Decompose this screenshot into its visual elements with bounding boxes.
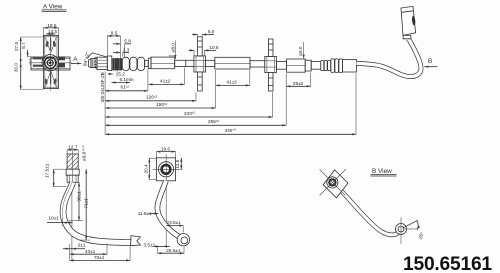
detail2 end lobe: [177, 234, 189, 246]
detail2 dim 3.5: [144, 243, 171, 248]
main view: hose narrow 2: [206, 60, 215, 66]
detail2 dim 26.5: [158, 247, 185, 253]
detail2 tube: [157, 181, 183, 239]
detail1 dim 12.7: [67, 145, 78, 154]
svg-text:B: B: [428, 58, 432, 65]
detail2 centerline long: [165, 185, 167, 248]
dim 27.5 (A view left): [14, 37, 21, 63]
B view label 20deg: [418, 231, 425, 239]
detail1 label dia 9.6: [81, 145, 86, 161]
A View title: [42, 4, 67, 12]
main view: banjo neck: [403, 35, 411, 38]
svg-text:5.2: 5.2: [118, 72, 125, 77]
dim 29: [286, 73, 311, 86]
main view: clip 1 body: [194, 56, 206, 72]
main view: hose cylinder 2: [215, 57, 250, 69]
svg-text:5.1min: 5.1min: [120, 77, 134, 82]
detail2 dim 11.5 right: [175, 158, 182, 170]
svg-text:23.5±1: 23.5±1: [167, 220, 182, 225]
svg-text:10±1: 10±1: [49, 216, 60, 221]
dim 5.2: [108, 71, 125, 77]
main view: banjo eye (dark): [412, 16, 416, 26]
detail1 tube: [62, 182, 131, 242]
dim 5.8: [113, 39, 131, 57]
dim 14.5 (A view top): [46, 29, 58, 34]
A view slot bottom arm: [44, 72, 57, 87]
svg-text:2±1: 2±1: [78, 242, 86, 247]
main view: cylinder1 end cap: [148, 58, 151, 69]
svg-text:26.5±1: 26.5±1: [166, 248, 181, 253]
detail1 washer: [66, 169, 79, 175]
A view centerlines: [30, 34, 72, 91]
main view: hose narrow 5: [311, 61, 321, 69]
dim 30.0 (A view left): [13, 37, 43, 90]
A view flange vertical arm: [43, 35, 58, 88]
detail2 block: [156, 158, 175, 181]
svg-text:29±2: 29±2: [293, 81, 304, 86]
dim 9.5: [107, 30, 120, 58]
svg-text:3/8-24UNF-2B: 3/8-24UNF-2B: [100, 72, 105, 102]
main view: hose narrow 4: [277, 61, 287, 69]
svg-text:30.0: 30.0: [13, 63, 18, 73]
A view slot right arm: [59, 57, 65, 68]
main view: crimp ribs small: [321, 61, 331, 71]
svg-text:11.5: 11.5: [175, 159, 180, 168]
detail2 dim 23.5: [166, 220, 183, 233]
B View title: [371, 168, 397, 176]
label dia 12.3: [93, 56, 98, 68]
A view slot left arm: [33, 57, 44, 67]
svg-text:2.3: 2.3: [123, 47, 130, 52]
svg-text:⌀12.3: ⌀12.3: [93, 56, 98, 68]
dim 18.5 (A view top): [43, 23, 58, 35]
svg-text:70±1: 70±1: [94, 255, 105, 260]
dim 6.0 (clip1): [192, 29, 215, 36]
main view: steel tube J-hook: [357, 38, 422, 76]
main view: bellows strain relief: [122, 57, 144, 70]
detail1 centerline: [71, 151, 74, 261]
main view: fitting body hex: [97, 57, 107, 69]
main view: hose cylinder 3: [287, 59, 306, 72]
svg-text:150.65161: 150.65161: [403, 254, 492, 273]
dim 41 first: [149, 68, 185, 85]
svg-text:⌀5.0: ⌀5.0: [298, 46, 303, 56]
detail2 dim 19.6: [156, 146, 175, 158]
svg-text:⌀6.3: ⌀6.3: [28, 58, 32, 64]
detail1 dim 38: [69, 182, 83, 220]
detail1 crimp: [67, 175, 78, 182]
dim 126: [105, 93, 196, 101]
svg-text:5.8: 5.8: [124, 39, 131, 44]
section arrow A: [71, 56, 81, 63]
detail1 dim 10: [47, 216, 73, 226]
svg-text:B View: B View: [372, 168, 392, 175]
main view: banjo block: [401, 6, 416, 35]
section arrow B: [424, 58, 437, 67]
detail1 fitting block (hatched): [67, 154, 78, 169]
label dia 6.3 near hub: [28, 58, 32, 64]
detail1 tube end break symbol: [131, 236, 141, 246]
detail1 dim 2: [63, 242, 86, 260]
B view banjo eye: [327, 177, 338, 188]
detail1 dim 43: [70, 244, 107, 255]
main view: bracket plate 2: [268, 39, 273, 91]
svg-text:12.7: 12.7: [68, 145, 78, 150]
svg-text:14.5: 14.5: [48, 29, 58, 34]
main view: fitting face washer: [107, 56, 112, 71]
detail1 dim 70: [70, 247, 130, 261]
dim 2.3: [113, 47, 130, 57]
svg-text:27.5: 27.5: [14, 42, 19, 52]
dim 150: [105, 70, 216, 108]
label dia 8.0: [169, 41, 176, 60]
main view: clip 2 body: [265, 56, 277, 72]
dim 330: [105, 72, 356, 135]
angle leader 84deg: [88, 53, 107, 58]
label dia 5.0: [298, 42, 304, 59]
main view: crimp collar (dark): [113, 59, 122, 70]
B view banjo block: [323, 170, 348, 198]
main view: thread section: [91, 59, 97, 68]
dim 10.5 (clip1): [189, 45, 219, 55]
svg-text:19.6: 19.6: [161, 146, 171, 151]
detail2 eye circles: [158, 162, 173, 177]
A view center circles: [42, 55, 58, 71]
B view diagonal centerlines: [320, 169, 347, 196]
main view: hose cylinder 1: [151, 57, 175, 69]
A view slot top arm: [45, 37, 56, 52]
svg-text:A: A: [73, 56, 78, 63]
detail2 block centerlines: [153, 155, 180, 185]
main view: crimp ribs large: [331, 59, 343, 73]
B view angle ray 20deg: [403, 220, 419, 229]
B view tube: [341, 191, 401, 235]
main view: hose narrow 3: [250, 61, 265, 67]
dim 233: [105, 92, 273, 117]
tube joint line: [185, 60, 187, 66]
B view end eye: [396, 224, 407, 235]
detail1 dim 17.5: [44, 163, 66, 186]
svg-text:6.7: 6.7: [21, 42, 26, 49]
main view: neck after bellows: [145, 60, 149, 66]
svg-text:43±1: 43±1: [85, 249, 96, 254]
label 84 deg: [82, 52, 90, 67]
dim 255: [105, 73, 286, 125]
dim 5.1min: [112, 77, 134, 83]
detail2 leader 11.5: [138, 211, 159, 216]
main view: hose step: [305, 60, 311, 71]
svg-text:⌀8.0: ⌀8.0: [171, 43, 176, 53]
svg-text:41±2: 41±2: [227, 80, 238, 85]
dim 6.7 (A view left): [21, 42, 43, 57]
svg-text:3.5±1: 3.5±1: [144, 243, 156, 248]
dim 61: [105, 70, 148, 91]
detail1 dim 71: [80, 169, 90, 240]
main view: right end cap: [343, 60, 357, 72]
detail2 dim 20.4 left: [144, 158, 157, 179]
svg-text:20.4: 20.4: [144, 164, 149, 174]
B view crosshair: [401, 217, 418, 244]
main view: bracket plate 1: [198, 37, 203, 91]
svg-text:10.5: 10.5: [209, 45, 219, 50]
A view flange horizontal arm: [31, 57, 70, 70]
svg-text:17.5±1: 17.5±1: [44, 163, 49, 178]
main view: hose narrow 1: [175, 60, 194, 66]
dim 41 second: [216, 70, 250, 85]
svg-text:6.0: 6.0: [208, 29, 215, 34]
part number: [403, 254, 492, 273]
main view: left fitting nose: [89, 59, 92, 68]
svg-text:41±2: 41±2: [160, 78, 171, 83]
svg-text:9.5: 9.5: [111, 30, 118, 35]
label thread 3/8-24UNF-2B: [100, 72, 105, 102]
